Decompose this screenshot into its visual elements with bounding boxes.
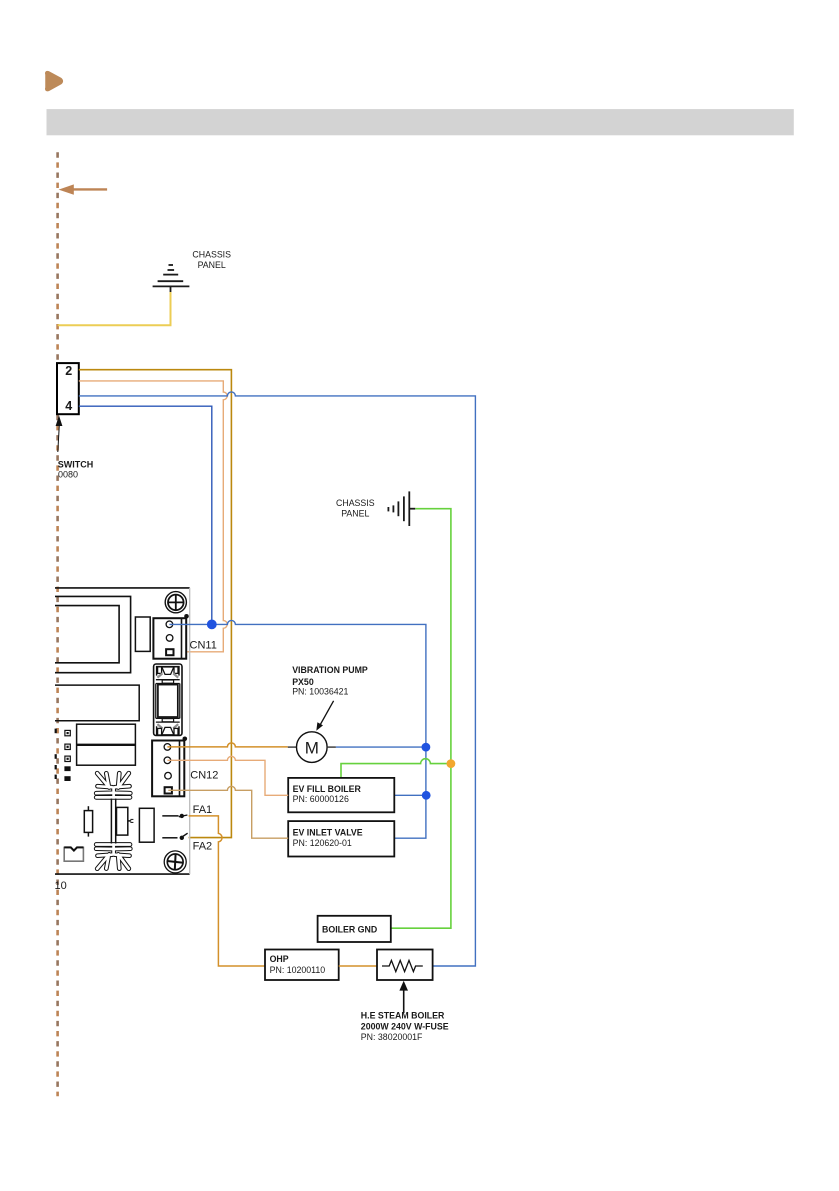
wire switch pin2 (dark amber) to FA2 <box>79 370 232 838</box>
wire OHP to boiler fuse (orange) <box>339 965 377 967</box>
chassis panel ground (right) <box>388 491 415 526</box>
junction dot (CN12 corner) <box>183 737 188 742</box>
component rect (right of heatsink) <box>139 808 154 842</box>
svg-text:FA1: FA1 <box>193 804 213 816</box>
transistor <box>117 807 134 835</box>
EV INLET VALVE box <box>288 821 394 856</box>
connector CN11 <box>153 618 186 659</box>
svg-text:CN11: CN11 <box>190 640 217 652</box>
EV FILL BOILER box <box>288 778 394 812</box>
fuse FA1 <box>162 814 187 818</box>
svg-text:EV INLET VALVE: EV INLET VALVE <box>293 827 363 837</box>
wire switch pin4 (blue) down to CN11 junction <box>79 406 212 624</box>
junction dot (EV FILL) <box>422 791 431 800</box>
wire switch pin3 (blue) to boiler fuse <box>79 392 476 966</box>
mounting screw (bottom) <box>164 851 186 873</box>
small rect left of CN11 <box>135 617 150 651</box>
PCB board outline <box>55 588 190 874</box>
svg-text:H.E STEAM BOILER: H.E STEAM BOILER <box>361 1011 445 1021</box>
svg-text:BOILER GND: BOILER GND <box>322 925 377 935</box>
breadcrumb arrow icon <box>46 72 62 90</box>
capacitor <box>84 806 92 836</box>
stacked rectangles component <box>77 724 136 765</box>
svg-text:SWITCH: SWITCH <box>58 460 94 470</box>
svg-text:PN: 60000126: PN: 60000126 <box>293 794 349 804</box>
svg-text:2: 2 <box>65 364 72 378</box>
label CHASSIS PANEL (right) <box>336 498 375 519</box>
svg-text:EV FILL BOILER: EV FILL BOILER <box>293 784 362 794</box>
svg-text:0080: 0080 <box>58 469 78 479</box>
svg-text:PX50: PX50 <box>292 677 314 687</box>
svg-text:2000W 240V W-FUSE: 2000W 240V W-FUSE <box>361 1021 449 1031</box>
green branch to EV FILL <box>341 759 451 778</box>
svg-text:VIBRATION PUMP: VIBRATION PUMP <box>292 665 368 675</box>
OHP box <box>265 950 339 981</box>
vibration pump M1 <box>288 732 336 763</box>
boiler pointer arrow <box>399 981 408 1013</box>
wire FA1 to OHP (orange) <box>189 816 265 966</box>
svg-text:4: 4 <box>65 399 72 413</box>
section header bar <box>47 109 794 135</box>
svg-text:CHASSIS: CHASSIS <box>336 498 375 508</box>
header pins (left column) <box>55 729 71 781</box>
svg-text:PN: 10200110: PN: 10200110 <box>270 965 326 975</box>
wire CN12 square to EV INLET (orange) <box>168 786 288 838</box>
svg-text:10: 10 <box>55 880 67 892</box>
green ground wire <box>391 509 451 929</box>
svg-text:OHP: OHP <box>270 954 289 964</box>
svg-text:PN: 10036421: PN: 10036421 <box>292 686 348 696</box>
fuse FA2 <box>162 833 187 840</box>
label CHASSIS PANEL (top) <box>192 250 231 271</box>
boiler fuse box <box>377 950 433 981</box>
page edge dashed line <box>56 152 59 1096</box>
junction dot (CN11 corner) <box>184 614 189 619</box>
wire pump to blue net <box>336 746 426 748</box>
yellow ground wire <box>58 292 171 325</box>
pump pointer arrow <box>320 701 334 726</box>
amber junction dot <box>447 759 456 768</box>
wire CN11 to pump/valves net (blue) <box>169 620 426 838</box>
svg-text:PANEL: PANEL <box>341 509 369 519</box>
chassis panel ground (top) <box>153 265 190 292</box>
connector CN12 <box>152 741 184 797</box>
mounting screw (top) <box>165 592 186 613</box>
wire switch (tan) to CN11 square pin <box>79 381 227 652</box>
svg-text:M: M <box>305 739 319 758</box>
BOILER GND box <box>318 916 391 942</box>
wire CN12 pin2 to EV FILL (tan) <box>167 756 288 795</box>
svg-text:CHASSIS: CHASSIS <box>192 250 231 260</box>
switch pointer arrow <box>56 416 63 453</box>
left arrow marker <box>59 184 108 194</box>
svg-text:PN: 120620-01: PN: 120620-01 <box>293 838 352 848</box>
junction dot (pump) <box>422 743 431 752</box>
svg-text:PANEL: PANEL <box>198 260 226 270</box>
wire CN12 pin1 to pump (amber) <box>167 743 287 747</box>
switch connector box <box>57 363 79 414</box>
relay K1 <box>154 664 182 736</box>
rect component (mid-left) <box>55 685 139 721</box>
wire EV FILL to blue net <box>394 794 426 796</box>
svg-text:PN: 38020001F: PN: 38020001F <box>361 1032 423 1042</box>
svg-text:CN12: CN12 <box>190 770 218 782</box>
transformer outer rect <box>55 596 131 672</box>
bracket component (bottom left) <box>64 847 83 861</box>
svg-text:FA2: FA2 <box>193 841 213 853</box>
junction dot (CN11 blue) <box>207 620 217 630</box>
transformer inner rect <box>55 606 119 663</box>
